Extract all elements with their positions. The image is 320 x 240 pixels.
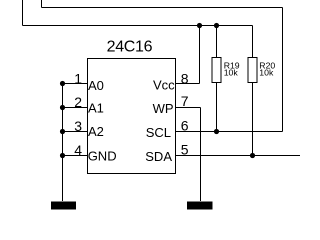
- wire WP to ground: [200, 108, 202, 202]
- svg-text:10k: 10k: [224, 68, 239, 78]
- wire Vcc net vertical from top edge: [22, 0, 24, 26]
- node junction pin4 bus: [60, 153, 65, 158]
- ground symbol left: [51, 202, 76, 210]
- wire Vcc rail horizontal: [23, 25, 253, 27]
- svg-text:GND: GND: [88, 148, 117, 163]
- wire address bus to ground: [62, 84, 64, 202]
- resistor R20 body: [248, 58, 257, 83]
- svg-text:A1: A1: [88, 101, 104, 116]
- svg-text:2: 2: [74, 94, 82, 110]
- svg-text:3: 3: [74, 118, 82, 134]
- wire R20 top leg: [252, 26, 254, 58]
- svg-text:8: 8: [181, 71, 189, 87]
- wire pin 3 A2: [63, 131, 88, 133]
- wire pin 4 GND: [63, 155, 88, 157]
- wire pin 8 Vcc: [176, 83, 200, 85]
- node junction R20 SDA: [250, 153, 255, 158]
- node junction pin1 bus: [60, 81, 65, 86]
- node junction Vcc rail riser: [197, 23, 202, 28]
- svg-text:WP: WP: [153, 101, 174, 116]
- ground symbol right: [187, 202, 213, 210]
- wire Vcc riser to pin 8: [199, 26, 201, 84]
- svg-text:10k: 10k: [259, 68, 274, 78]
- svg-text:1: 1: [74, 70, 82, 86]
- wire R20 bottom leg to SDA: [252, 82, 254, 156]
- wire pin 2 A1: [63, 107, 88, 109]
- svg-text:6: 6: [181, 118, 189, 134]
- wire SCL net right vertical: [282, 8, 284, 132]
- wire R19 top leg: [216, 26, 218, 58]
- svg-text:Vcc: Vcc: [153, 78, 175, 93]
- wire pin 5 SDA to right edge: [176, 155, 301, 157]
- wire pin 7 WP: [176, 107, 201, 109]
- node junction Vcc rail R19: [214, 23, 219, 28]
- wire R19 bottom leg to SCL: [216, 82, 218, 132]
- IC U1 24C16 EEPROM body: [88, 59, 176, 174]
- resistor R19 body: [212, 58, 221, 83]
- wire pin 1 A0: [63, 83, 88, 85]
- svg-text:SCL: SCL: [146, 125, 171, 140]
- svg-text:24C16: 24C16: [107, 39, 153, 56]
- node junction pin2 bus: [60, 105, 65, 110]
- wire pin 6 SCL: [176, 131, 283, 133]
- svg-text:SDA: SDA: [145, 149, 172, 164]
- svg-text:7: 7: [181, 93, 189, 109]
- svg-text:4: 4: [74, 142, 82, 158]
- svg-text:5: 5: [181, 142, 189, 158]
- svg-text:A0: A0: [88, 78, 104, 93]
- wire SCL net vertical from top edge: [41, 0, 43, 8]
- wire SCL net top horizontal: [42, 7, 283, 9]
- node junction R19 SCL: [214, 129, 219, 134]
- svg-text:A2: A2: [88, 124, 104, 139]
- node junction pin3 bus: [60, 129, 65, 134]
